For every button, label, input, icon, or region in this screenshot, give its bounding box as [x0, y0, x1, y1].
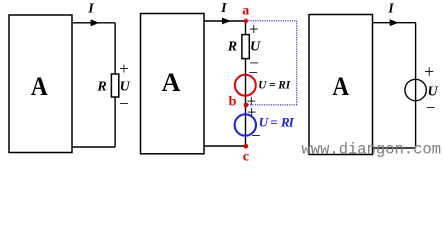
resistor R (middle circuit) — [242, 35, 249, 59]
svg-text:−: − — [426, 98, 436, 117]
svg-text:+: + — [249, 20, 259, 39]
svg-text:a: a — [242, 4, 249, 19]
node c dot — [243, 144, 248, 149]
svg-text:I: I — [220, 1, 227, 16]
svg-text:b: b — [229, 95, 237, 110]
svg-text:R: R — [96, 80, 106, 95]
svg-text:U=RI: U=RI — [259, 114, 295, 129]
svg-text:−: − — [251, 126, 261, 145]
wire top (right circuit) — [373, 22, 416, 24]
network box A (left circuit) — [9, 15, 72, 153]
node a dot — [244, 19, 248, 23]
svg-text:I: I — [387, 2, 394, 17]
node b dot — [244, 103, 249, 108]
current arrow I (middle) — [222, 18, 231, 25]
svg-text:−: − — [119, 94, 129, 113]
blue dotted boundary top — [246, 20, 297, 22]
wire right branch (right circuit) — [415, 23, 417, 148]
voltage source circle (right) — [405, 79, 426, 100]
wire bottom (right circuit) — [373, 147, 416, 149]
svg-text:c: c — [243, 150, 249, 165]
svg-text:+: + — [424, 62, 434, 82]
svg-text:U=RI: U=RI — [258, 80, 290, 92]
blue dotted boundary bottom — [246, 104, 297, 106]
svg-text:R: R — [227, 39, 237, 54]
wire middle branch (middle circuit) — [245, 21, 247, 146]
wire top (middle circuit) — [204, 20, 246, 22]
wire right branch (left circuit) — [114, 23, 116, 147]
wire top (left circuit) — [72, 22, 115, 24]
current arrow I (left) — [91, 19, 100, 26]
network box A (middle circuit) — [141, 14, 205, 154]
blue voltage source circle U=RI — [235, 114, 256, 135]
current arrow I (right) — [390, 19, 399, 26]
resistor R (left circuit) — [111, 74, 118, 97]
network box A (right circuit) — [309, 15, 373, 155]
svg-text:U: U — [250, 39, 261, 54]
wire bottom (middle circuit) — [204, 145, 246, 147]
blue dotted boundary right — [296, 21, 298, 105]
svg-text:+: + — [119, 59, 129, 78]
svg-text:U: U — [120, 80, 131, 95]
svg-text:I: I — [87, 2, 94, 17]
svg-text:A: A — [332, 72, 349, 101]
red voltage source circle U=RI — [235, 75, 256, 96]
svg-text:www.diangon.com: www.diangon.com — [302, 141, 442, 159]
svg-text:A: A — [162, 68, 181, 97]
wire bottom (left circuit) — [72, 146, 115, 148]
svg-text:A: A — [31, 72, 48, 101]
